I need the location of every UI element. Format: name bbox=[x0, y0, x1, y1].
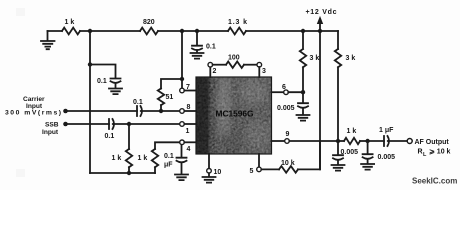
node J12 output/3k#2 bbox=[336, 139, 340, 143]
wire J12 to R10 bbox=[338, 140, 344, 142]
wire 10k to +12 line corner bbox=[298, 141, 320, 169]
pin 3 stub bbox=[258, 67, 260, 77]
wire rail 1.3k to right end bbox=[246, 30, 338, 32]
wire vertical x=90 (rail down to bottom rail) bbox=[89, 31, 91, 173]
wire +12 vertical x=320 bbox=[319, 31, 321, 169]
carrier input terminal dot bbox=[63, 109, 68, 114]
wire x90 branch to C1 bbox=[90, 65, 116, 78]
pin 6 circle bbox=[284, 90, 289, 95]
faint smudge top-left bbox=[16, 8, 25, 16]
ground G6 under C6 bbox=[297, 108, 310, 121]
svg-text:1 k: 1 k bbox=[112, 155, 122, 162]
resistor R4 51 (vertical) bbox=[158, 89, 164, 106]
node J3 rail/x197 bbox=[195, 29, 199, 33]
pin 8 stub bbox=[184, 110, 196, 112]
IC body outline bbox=[196, 77, 272, 154]
faint smudge bottom-left bbox=[16, 169, 25, 177]
node J7a 51ohm/pin7 bbox=[180, 77, 184, 81]
pin 4 circle bbox=[180, 140, 185, 145]
wire J7a to pin 7 circle bbox=[181, 79, 183, 88]
capacitor C7 0.005 (at J12) bbox=[333, 141, 343, 160]
svg-text:5: 5 bbox=[250, 168, 254, 175]
wire R10 to J13 bbox=[360, 140, 368, 142]
pin 9 stub bbox=[272, 140, 285, 142]
pin 1 stub bbox=[184, 123, 196, 125]
capacitor C8 0.005 (at J13) bbox=[363, 141, 373, 159]
resistor R10 1k (output) bbox=[344, 138, 360, 144]
svg-text:+12 Vdc: +12 Vdc bbox=[306, 9, 337, 16]
wire J9 down to R5 bbox=[128, 124, 130, 149]
svg-text:1.3 k: 1.3 k bbox=[228, 19, 247, 26]
ground G7 under C7 bbox=[332, 160, 345, 171]
svg-text:SeekIC.com: SeekIC.com bbox=[412, 177, 457, 186]
pin 2 circle bbox=[208, 62, 213, 67]
wire C9 to output terminal bbox=[388, 140, 407, 142]
pin 8 circle bbox=[180, 109, 185, 114]
svg-text:2: 2 bbox=[213, 68, 217, 75]
wire R6 to bottom rail bbox=[154, 167, 156, 173]
wire top rail left segment bbox=[48, 30, 63, 32]
pin 7 stub bbox=[184, 90, 196, 92]
pin 4 stub bbox=[184, 141, 196, 143]
pin 1 circle bbox=[180, 122, 185, 127]
svg-text:Input: Input bbox=[42, 129, 59, 136]
ground G3 under C2 bbox=[191, 50, 204, 58]
output terminal circle bbox=[407, 139, 412, 144]
wire pin9 to J12 bbox=[289, 140, 338, 142]
wire SSB input to C4 bbox=[66, 123, 110, 125]
svg-text:1 μF: 1 μF bbox=[379, 127, 394, 134]
wire J7a left to 51 ohm bbox=[161, 79, 182, 89]
capacitor C6 0.005 (pin6 to gnd) bbox=[298, 92, 308, 108]
wire C3 to pin 8 bbox=[141, 110, 180, 112]
svg-text:3 k: 3 k bbox=[310, 55, 320, 62]
svg-text:3: 3 bbox=[262, 68, 266, 75]
SSB input terminal dot bbox=[63, 122, 68, 127]
resistor R2 820 bbox=[140, 28, 158, 35]
node J5 rail/+12 bbox=[318, 29, 322, 33]
svg-text:1 k: 1 k bbox=[347, 128, 357, 135]
pin 10 circle bbox=[207, 169, 212, 174]
pin 9 circle bbox=[285, 139, 290, 144]
svg-text:0.005: 0.005 bbox=[277, 105, 295, 112]
pin 6 stub bbox=[272, 91, 284, 93]
pin 3 circle bbox=[257, 62, 262, 67]
svg-text:0.1: 0.1 bbox=[206, 44, 216, 51]
capacitor C2 0.1 (rail bypass at x197) bbox=[192, 31, 202, 50]
resistor R8 3k (vertical) bbox=[300, 31, 306, 92]
svg-text:820: 820 bbox=[143, 19, 155, 26]
svg-text:SSB: SSB bbox=[45, 122, 59, 129]
pin 10 stub bbox=[208, 154, 210, 169]
pin 2 stub bbox=[209, 67, 211, 77]
wire pin5 to 10k bbox=[261, 168, 279, 170]
node J6 x90/C1 bbox=[88, 62, 92, 66]
wire carrier input to C3 bbox=[66, 110, 138, 112]
svg-text:10 k: 10 k bbox=[281, 160, 295, 167]
svg-text:6: 6 bbox=[282, 84, 286, 91]
ground G5 under pin 10 bbox=[203, 173, 216, 183]
node J13 output/C8 bbox=[365, 139, 369, 143]
svg-text:0.1: 0.1 bbox=[97, 78, 107, 85]
svg-text:1 k: 1 k bbox=[138, 155, 148, 162]
svg-text:MC1596G: MC1596G bbox=[216, 109, 254, 119]
svg-text:7: 7 bbox=[186, 84, 190, 91]
svg-text:μF: μF bbox=[164, 162, 173, 169]
resistor R6 1k (vertical) bbox=[152, 149, 158, 167]
capacitor C9 1uF (output coupling) bbox=[384, 136, 389, 146]
ground G1 top-left bbox=[41, 31, 55, 49]
bottom rail bbox=[90, 172, 155, 174]
svg-text:Carrier: Carrier bbox=[23, 96, 45, 103]
wire J13 to C9 bbox=[368, 140, 384, 142]
svg-text:0.1: 0.1 bbox=[133, 99, 143, 106]
svg-text:1: 1 bbox=[186, 128, 190, 135]
svg-text:0.1: 0.1 bbox=[164, 153, 174, 160]
node J11 pin6/3k bbox=[301, 90, 305, 94]
pin 5 circle bbox=[257, 167, 262, 172]
svg-text:100: 100 bbox=[228, 55, 240, 62]
wire rail end down to 3k#2 bbox=[337, 31, 339, 49]
svg-text:0.005: 0.005 bbox=[378, 154, 396, 161]
wire R5 to bottom rail bbox=[128, 167, 130, 173]
wire C4 to pin 1 bbox=[113, 123, 180, 125]
node J2 rail/x182 bbox=[180, 29, 184, 33]
svg-text:⩾ 10 k: ⩾ 10 k bbox=[429, 149, 451, 156]
svg-text:8: 8 bbox=[187, 104, 191, 111]
pin 7 circle bbox=[180, 88, 185, 93]
resistor R3 1.3k bbox=[228, 28, 246, 35]
svg-text:10: 10 bbox=[214, 169, 222, 176]
capacitor C4 0.1 (SSB coupling) bbox=[109, 119, 114, 129]
svg-text:0.005: 0.005 bbox=[341, 149, 359, 156]
wire pin6 to 3k bbox=[288, 91, 303, 93]
svg-text:9: 9 bbox=[286, 131, 290, 138]
ground G2 under C1 bbox=[109, 83, 122, 94]
ground G8 under C8 bbox=[361, 159, 374, 170]
ground G4 under C5 bbox=[175, 162, 188, 180]
node J1 rail/x90 bbox=[88, 29, 92, 33]
svg-text:R: R bbox=[418, 149, 423, 156]
svg-text:300 mV(rms): 300 mV(rms) bbox=[5, 110, 61, 117]
node J8a carrier/51 bbox=[159, 109, 163, 113]
node J10 bottom rail/R5 bbox=[127, 171, 131, 175]
wire rail 820 to 1.3k bbox=[158, 30, 228, 32]
svg-text:3 k: 3 k bbox=[346, 55, 356, 62]
wire pin2 to R7 bbox=[213, 64, 226, 66]
resistor R9 3k (vertical) bbox=[335, 49, 341, 141]
svg-text:AF Output: AF Output bbox=[415, 139, 450, 146]
resistor R7 100 bbox=[226, 61, 244, 67]
node J9 SSB/1k bbox=[127, 122, 131, 126]
svg-text:0.1: 0.1 bbox=[105, 133, 115, 140]
svg-text:51: 51 bbox=[166, 94, 174, 101]
capacitor C1 0.1 (bypass left) bbox=[111, 79, 121, 83]
node J4 rail/3k#1 bbox=[301, 29, 305, 33]
power +12 Vdc arrow bbox=[319, 23, 321, 32]
svg-text:4: 4 bbox=[187, 146, 191, 153]
wire rail 1k to 820 bbox=[80, 30, 140, 32]
wire R6 top to pin 4 line bbox=[155, 142, 180, 149]
resistor R1 1k (top-left) bbox=[62, 28, 80, 35]
wire R7 to pin3 bbox=[244, 64, 257, 66]
capacitor C5 0.1uF (pin 4 bypass) bbox=[177, 145, 187, 162]
resistor R5 1k (vertical) bbox=[126, 149, 132, 167]
pin 5 stub bbox=[258, 154, 260, 167]
wire 51 ohm to carrier line bbox=[160, 105, 162, 111]
svg-text:1 k: 1 k bbox=[65, 19, 75, 26]
capacitor C3 0.1 (carrier coupling) bbox=[137, 106, 142, 116]
wire x182 rail down to pin7 node bbox=[181, 31, 183, 79]
resistor R11 10k bbox=[279, 166, 298, 173]
